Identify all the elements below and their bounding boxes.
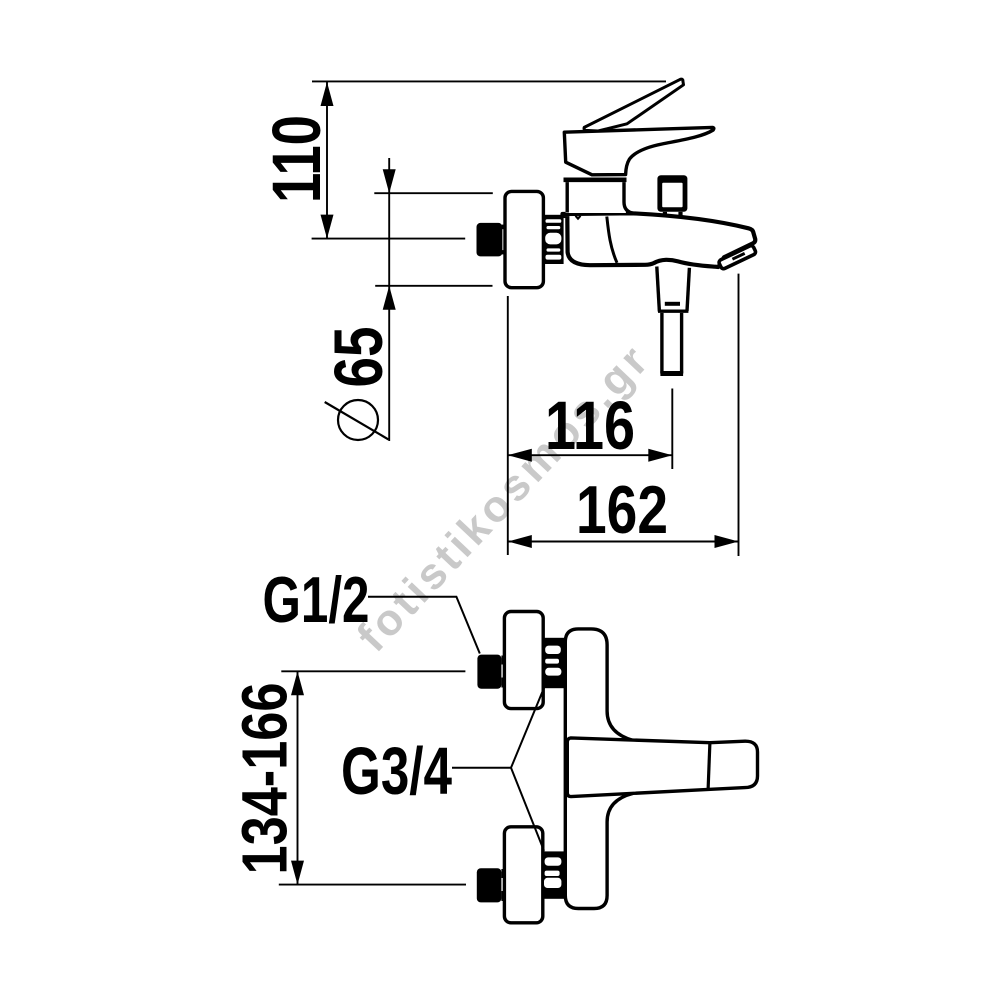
- nut with ribs: [543, 215, 563, 264]
- bottom escutcheon (front view): [504, 827, 542, 923]
- dimension 162: [508, 535, 739, 548]
- shower outlet trapezoid: [657, 267, 690, 312]
- main body front view: [565, 629, 633, 909]
- extension line at spout tip: [738, 274, 740, 556]
- dimension 116: [508, 449, 673, 462]
- dimension 110 vertical line with arrows: [321, 82, 334, 239]
- svg-text:G3/4: G3/4: [341, 734, 452, 809]
- shower hose connection tube: [660, 313, 683, 374]
- diverter knob: [657, 175, 687, 216]
- extension line below shower tube: [671, 389, 673, 470]
- svg-text:110: 110: [258, 115, 335, 203]
- extension line below escutcheon: [507, 296, 509, 555]
- svg-text:134-166: 134-166: [229, 683, 301, 875]
- bottom connector with slots: [543, 851, 565, 898]
- wire extension line at faucet axis: [312, 238, 466, 240]
- bottom G1/2 fitting (front view): [477, 868, 506, 902]
- diameter symbol: [325, 400, 389, 440]
- dimension 65 extension/arrow group: [374, 158, 493, 441]
- aerator at spout tip: [718, 245, 756, 270]
- notch tick on body: [576, 216, 581, 219]
- svg-text:65: 65: [320, 327, 397, 388]
- svg-text:162: 162: [576, 472, 668, 548]
- wall escutcheon (side view): [505, 191, 543, 287]
- handle knob divider: [708, 743, 710, 790]
- top escutcheon (front view): [504, 612, 543, 709]
- aerator inner dash: [732, 253, 744, 259]
- dimension 134-166: [279, 671, 466, 884]
- handle base body: [564, 127, 714, 174]
- upper valve body slab: [566, 182, 635, 213]
- handle bar front view: [567, 738, 757, 797]
- svg-text:G1/2: G1/2: [263, 563, 370, 636]
- top connector with slots: [543, 638, 565, 688]
- G1/2 fitting (side view): [477, 223, 506, 257]
- top G1/2 fitting (front view): [477, 655, 506, 689]
- internal body-to-spout contour: [607, 217, 617, 263]
- spout body (side view): [563, 213, 756, 267]
- cartridge plate: [564, 178, 627, 183]
- lever blade: [584, 79, 683, 131]
- svg-text:116: 116: [545, 387, 635, 464]
- wire extension line top (to lever tip): [312, 80, 666, 82]
